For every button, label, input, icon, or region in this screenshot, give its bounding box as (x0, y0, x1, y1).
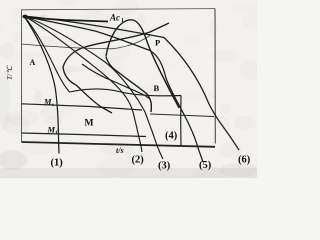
origin blob (22, 15, 27, 19)
bottom time axis (22, 142, 216, 147)
cooling curve 3 (24, 16, 163, 159)
cooling curve 4 step: descent (24, 16, 70, 92)
transformation mid line (82, 64, 150, 99)
cooling curve 1 (24, 16, 59, 154)
C-curve 1 upper branch (63, 23, 169, 67)
svg-text:P: P (155, 38, 160, 48)
C-curve 2 lower branch (106, 57, 151, 113)
cooling curve 4 step: final drop (180, 96, 182, 147)
svg-text:(4): (4) (165, 131, 178, 142)
cooling curve 2 (24, 16, 142, 152)
horizontal thin line from left border (22, 36, 151, 49)
top border (22, 9, 216, 10)
svg-text:f: f (56, 130, 58, 136)
Ms line (22, 104, 143, 110)
right border (214, 9, 216, 144)
svg-text:M: M (85, 119, 94, 129)
cooling curve 4 step: hold (70, 89, 182, 96)
svg-text:A: A (30, 58, 36, 67)
left axis border (21, 10, 23, 143)
Ms line right segment (150, 114, 214, 117)
scan noise (70, 23, 96, 31)
cooling curve 5 (24, 16, 203, 162)
C-curve 2 upper branch (106, 20, 179, 108)
svg-text:M: M (43, 97, 52, 107)
svg-text:(1): (1) (51, 158, 64, 169)
cooling curve 6 (24, 16, 239, 150)
Ac1 line (24, 18, 108, 22)
svg-text:Ac: Ac (109, 13, 120, 23)
C-curve 1 lower branch (63, 67, 112, 113)
svg-text:M: M (47, 125, 56, 135)
Mf line (22, 133, 147, 137)
